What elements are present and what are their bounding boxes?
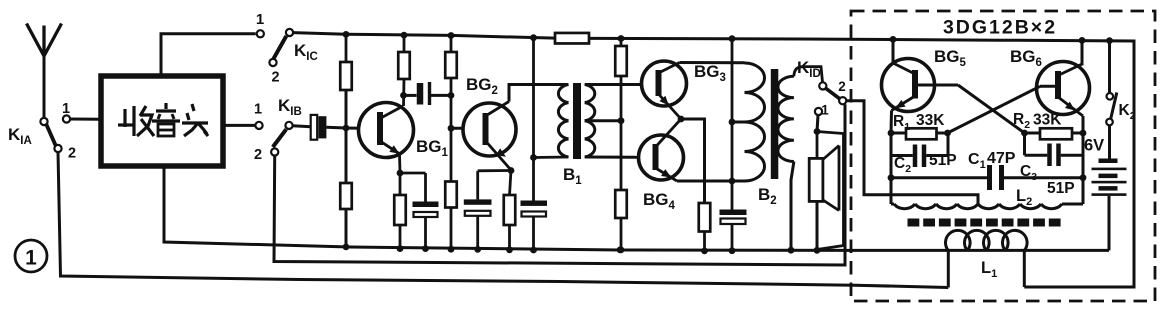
- B1 secondary center tap: [585, 119, 621, 122]
- node BG1 base junction: [345, 90, 348, 183]
- switch K1B pole: [285, 122, 292, 129]
- switch K1C pole: [286, 29, 293, 36]
- coupling capacitor C (input): [311, 115, 318, 140]
- wire K1B-2 long wire: [274, 104, 845, 265]
- switch K2 contact top: [1107, 93, 1114, 100]
- switch K1A pole: [40, 118, 47, 125]
- B2 secondary bottom wire: [791, 162, 794, 251]
- capacitor C3: [1023, 133, 1026, 155]
- switch K1D lever: [826, 88, 840, 99]
- node R2 right: [1080, 130, 1087, 137]
- decoupling resistor in top rail: [555, 33, 589, 44]
- transformer B1 primary: [558, 85, 568, 158]
- push-pull emitter resistor: [681, 119, 705, 203]
- battery 6V: [1108, 125, 1111, 160]
- B2 center tap stub: [732, 121, 745, 124]
- BG2 emitter bypass cap: [478, 169, 511, 172]
- wire K1B pole to coupling cap: [293, 126, 311, 127]
- BG3 collector wire to B2: [680, 61, 745, 64]
- interstage capacitor (BG1-BG2): [417, 83, 424, 105]
- transformer B2 secondary: [778, 76, 794, 161]
- tuner box text 收音头: [118, 103, 208, 136]
- transformer B2 primary: [745, 63, 765, 181]
- BG6 collector wire: [1081, 40, 1084, 65]
- node BG1 collector cap tap: [400, 92, 407, 99]
- tuner box 收音头: [101, 76, 223, 166]
- svg-text:1: 1: [254, 102, 262, 118]
- resistor R1: [891, 132, 906, 135]
- bias divider rail upper resistor R (BG1): [345, 34, 348, 62]
- right tank rail: [1082, 133, 1085, 204]
- decoupling rail: [530, 34, 537, 41]
- switch K1C lever: [274, 36, 287, 59]
- antenna: [43, 55, 46, 119]
- dashed enclosure: [851, 11, 1155, 301]
- figure label 1 circle: [15, 240, 47, 272]
- svg-text:33K: 33K: [1033, 112, 1062, 129]
- node ground x346: [343, 244, 350, 251]
- switch K1A contact 1: [63, 115, 70, 122]
- BG6 emitter arrow: [1065, 102, 1075, 111]
- BG1 emitter arrow: [389, 145, 399, 154]
- BG5 collector wire: [892, 39, 895, 63]
- node R1 left: [888, 130, 895, 137]
- transistor BG4: [639, 135, 684, 180]
- BG1 emitter wire: [398, 154, 401, 173]
- svg-text:33K: 33K: [916, 112, 945, 129]
- switch K1B contact 2: [271, 148, 278, 155]
- transistor BG2: [463, 103, 516, 156]
- wire tuner right to K1B: [223, 124, 255, 127]
- speaker: [817, 132, 844, 250]
- L1 left leg: [947, 251, 950, 288]
- svg-text:51P: 51P: [1047, 180, 1075, 197]
- decoupling capacitor: [521, 201, 548, 206]
- B2 secondary top wire to K1D: [794, 67, 823, 82]
- transformer B2 core: [771, 69, 779, 179]
- node R2 left: [1021, 130, 1028, 137]
- switch K2 wire top: [1108, 41, 1111, 93]
- BG1 collector resistor: [403, 35, 406, 52]
- svg-text:2: 2: [254, 147, 262, 163]
- switch K1D contact 1: [815, 108, 822, 115]
- switch K1B lever: [273, 129, 286, 147]
- BG4 emitter arrow: [661, 169, 671, 177]
- transistor BG3: [642, 61, 687, 106]
- wire tuner bottom / ground rail: [164, 166, 1109, 250]
- wire tuner top to K1C: [161, 34, 256, 76]
- wire to interstage cap: [404, 94, 417, 97]
- svg-text:2: 2: [271, 70, 279, 86]
- speaker ground wire: [816, 201, 819, 250]
- svg-text:47P: 47P: [987, 150, 1016, 167]
- BG2 collector wire to B1: [509, 85, 569, 102]
- svg-text:2: 2: [838, 79, 846, 94]
- node R1 right: [944, 130, 951, 137]
- switch K1A contact 2: [54, 145, 61, 152]
- node ground x620: [617, 247, 624, 254]
- B1 secondary bottom wire to BG4 base: [585, 156, 653, 159]
- B1 secondary top wire to BG3 base: [585, 83, 656, 86]
- top supply rail: [293, 33, 1134, 287]
- BG5 base wire: [915, 84, 958, 87]
- B2 center tap rail: [729, 35, 736, 42]
- svg-text:1: 1: [256, 11, 264, 28]
- capacitor C2: [891, 154, 913, 157]
- svg-text:2: 2: [68, 146, 76, 162]
- capacitor C1: [891, 176, 987, 179]
- BG4 emitter wire to B2 primary bottom: [677, 180, 745, 183]
- resistor R2: [1025, 132, 1041, 135]
- coil L2: [891, 203, 894, 206]
- switch K1C contact 2: [269, 59, 276, 66]
- transistor BG1: [359, 103, 414, 158]
- switch K2 lever: [1111, 93, 1117, 119]
- node top rail x346: [343, 31, 350, 38]
- switch K1C contact 1: [257, 30, 264, 37]
- transformer B1 core: [573, 83, 581, 159]
- BG5 emitter drop: [890, 111, 894, 134]
- push-pull bias rail: [618, 35, 625, 42]
- transistor BG5: [882, 59, 935, 112]
- BG6 base wire: [1040, 85, 1058, 88]
- B2 bypass capacitor: [720, 210, 747, 216]
- svg-text:1: 1: [62, 101, 70, 117]
- BG3 emitter arrow: [659, 96, 668, 106]
- BG2 lower bias resistor: [445, 182, 457, 208]
- BG2 emitter resistor: [510, 171, 512, 196]
- cross-coupling BG6 base to R1: [948, 86, 1041, 133]
- wire K1D-1 to speaker: [817, 115, 818, 131]
- svg-text:51P: 51P: [929, 152, 957, 169]
- BG1 emitter bypass cap: [400, 172, 426, 175]
- left tank rail: [890, 133, 893, 204]
- switch K1B contact 1: [255, 122, 262, 129]
- node BG3/BG4 coupling: [678, 116, 685, 123]
- ferrite core dashes: [908, 219, 920, 227]
- bias divider lower resistor R (BG1): [340, 183, 352, 209]
- L1 right leg: [1023, 251, 1026, 288]
- BG2 emitter wire: [508, 167, 515, 174]
- switch K2 contact bottom: [1106, 119, 1113, 126]
- wire cap to BG1 base: [326, 127, 376, 128]
- coil L1: [946, 230, 1028, 250]
- transformer B1 secondary: [585, 85, 595, 158]
- cross-coupling BG5 base to R2: [958, 85, 1025, 133]
- node interstage cap junction: [448, 92, 455, 99]
- BG2 base bias resistor rail: [448, 32, 455, 39]
- switch K1D contact 2: [839, 97, 846, 104]
- svg-text:1: 1: [25, 247, 37, 270]
- transistor BG6: [1037, 62, 1090, 115]
- BG1 emitter resistor: [399, 173, 402, 195]
- wire K1A-2 antenna bottom wire: [58, 152, 948, 288]
- node BG2 base junction: [448, 125, 455, 132]
- wire cap to BG2 base rail: [431, 94, 451, 97]
- wire K1D-2 to L2 tap: [846, 101, 978, 204]
- svg-text:3DG12B×2: 3DG12B×2: [943, 17, 1057, 39]
- wire K1A-1 to tuner: [70, 118, 101, 121]
- BG2 emitter arrow: [496, 148, 506, 156]
- svg-text:1: 1: [821, 103, 829, 118]
- BG6 emitter drop: [1082, 116, 1085, 133]
- switch K1D pole: [819, 82, 826, 89]
- switch K1A lever: [46, 124, 56, 146]
- wire to BG2 base: [451, 127, 483, 130]
- svg-text:6V: 6V: [1084, 137, 1104, 155]
- BG5 emitter arrow: [895, 100, 905, 108]
